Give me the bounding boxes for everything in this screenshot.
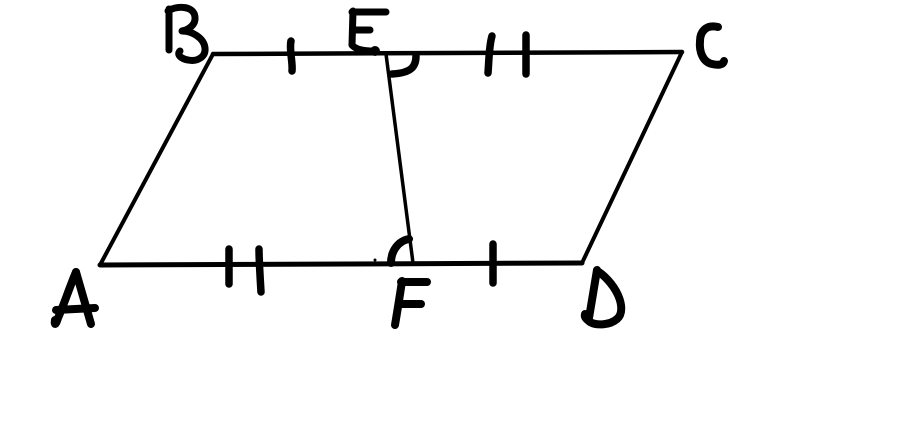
label C [700,26,724,64]
side BC (top) [213,52,682,54]
segment EF [386,54,413,263]
side AD (bottom) [100,263,582,265]
label E [352,11,386,56]
tick mark 1 on AF [225,249,233,284]
angle arc at E [392,56,416,74]
angle arc at F [391,239,409,263]
tick mark on BE [290,41,292,71]
tick mark on FD [489,244,497,283]
stray dot on AD near F [374,259,377,262]
label D [585,270,622,324]
label B [168,7,205,60]
label F [395,281,427,325]
tick mark 2 on AF [259,249,261,292]
tick mark 1 on EC [488,36,492,73]
side DC (right) [582,52,682,263]
label A [55,272,95,324]
side AB (left) [100,54,213,265]
tick mark 2 on EC [522,35,530,74]
